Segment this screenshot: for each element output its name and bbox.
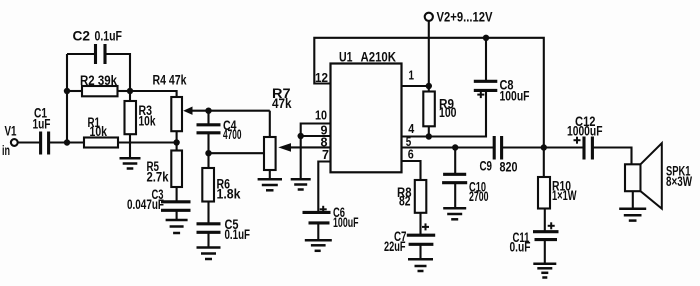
svg-text:1uF: 1uF bbox=[33, 117, 51, 132]
wire R6 bottom to C5 bbox=[207, 202, 209, 224]
svg-text:22uF: 22uF bbox=[384, 239, 406, 254]
svg-text:2700: 2700 bbox=[469, 189, 489, 204]
svg-text:1×1W: 1×1W bbox=[552, 188, 577, 203]
resistor R9 100 bbox=[423, 92, 456, 127]
wire V1 to C1 bbox=[18, 141, 41, 143]
svg-text:0.1uF: 0.1uF bbox=[95, 29, 123, 44]
wire R7 bottom to ground bbox=[269, 170, 271, 179]
svg-text:1: 1 bbox=[409, 68, 415, 83]
pin 1 wire bbox=[402, 85, 429, 87]
svg-text:0.1uF: 0.1uF bbox=[225, 227, 251, 242]
wire R3 top stem bbox=[129, 91, 131, 101]
capacitor C6 100uF bbox=[303, 205, 359, 230]
resistor R1 10k bbox=[84, 115, 118, 148]
pin 12 wire and bootstrap rail to output node bbox=[314, 38, 544, 148]
wire R9 bottom to pin 4 line bbox=[428, 126, 430, 136]
wire R9 top stem bbox=[428, 86, 430, 92]
svg-text:820: 820 bbox=[500, 160, 518, 175]
capacitor C11 0.uF bbox=[510, 222, 559, 254]
svg-text:0.047uF: 0.047uF bbox=[127, 197, 164, 212]
capacitor C9 820 bbox=[480, 136, 518, 175]
capacitor C8 100uF bbox=[474, 78, 530, 104]
svg-text:10k: 10k bbox=[90, 124, 108, 139]
svg-text:8×3W: 8×3W bbox=[666, 174, 692, 189]
svg-text:R2 39k: R2 39k bbox=[80, 73, 117, 88]
wire C10 stem bbox=[454, 148, 456, 175]
ground under C3 bbox=[166, 220, 188, 233]
ground under C5 bbox=[197, 248, 221, 260]
wire C9 to output node bbox=[502, 146, 584, 148]
ground under C10 bbox=[443, 208, 466, 219]
wire junction to R6 top bbox=[207, 153, 209, 168]
input terminal V1 bbox=[2, 124, 18, 159]
wire junction to R7 left bbox=[209, 152, 265, 154]
capacitor C4 4700 bbox=[197, 118, 242, 142]
svg-text:R4 47k: R4 47k bbox=[153, 73, 187, 88]
wire R1 right to R4/R5 junction bbox=[118, 141, 177, 143]
resistor R7 47k potentiometer bbox=[264, 86, 292, 170]
pin 4 wire to C8 bottom bbox=[402, 90, 487, 136]
ground under C6 bbox=[305, 240, 332, 251]
wire R5 bottom to C3 bbox=[176, 187, 178, 202]
wire junction to R5 top bbox=[176, 143, 178, 151]
node C10 junction bbox=[452, 144, 458, 150]
wire wiper line corner down to R7 top bbox=[269, 111, 271, 137]
pin 5 output wire bbox=[402, 146, 495, 148]
wire output node down to R10 bbox=[543, 148, 545, 178]
resistor R3 10k bbox=[125, 101, 156, 134]
svg-text:1000uF: 1000uF bbox=[567, 124, 603, 139]
svg-text:100uF: 100uF bbox=[333, 215, 359, 230]
ground under R3 bbox=[120, 158, 141, 168]
capacitor C10 2700 bbox=[442, 174, 488, 204]
svg-text:1.8k: 1.8k bbox=[217, 187, 242, 202]
wire speaker to ground bbox=[632, 191, 634, 209]
wire C10 to ground bbox=[454, 183, 456, 209]
node R2 left junction bbox=[64, 88, 70, 94]
svg-text:V1: V1 bbox=[5, 124, 17, 139]
wire C7 to ground bbox=[419, 244, 421, 259]
resistor R8 82 bbox=[397, 180, 426, 213]
svg-text:U1: U1 bbox=[339, 50, 353, 65]
resistor R4 47k potentiometer bbox=[153, 73, 187, 132]
ground under pin9/10 riser bbox=[291, 179, 311, 189]
svg-text:82: 82 bbox=[399, 194, 411, 209]
wire C3 to ground bbox=[176, 210, 178, 220]
pin 6 wire to R8 bbox=[402, 161, 421, 180]
wire C2 right leg down to node B bbox=[105, 54, 130, 91]
svg-text:in: in bbox=[2, 143, 10, 158]
svg-text:V2+9...12V: V2+9...12V bbox=[437, 10, 493, 25]
wire C12 to speaker bbox=[592, 148, 631, 165]
svg-text:4700: 4700 bbox=[223, 127, 242, 142]
pin 10 wire bbox=[301, 124, 331, 180]
capacitor C2 0.1uF bbox=[73, 29, 123, 65]
capacitor C1 1uF bbox=[33, 106, 51, 155]
resistor R10 1x1W bbox=[538, 177, 577, 209]
svg-text:100: 100 bbox=[439, 105, 457, 120]
ground under C7 bbox=[408, 259, 433, 271]
wire riser node A up to C2 level bbox=[66, 54, 68, 143]
wire C4 bottom to lower junction bbox=[207, 133, 209, 153]
wire R4 bottom to junction bbox=[176, 131, 178, 142]
svg-text:10k: 10k bbox=[139, 114, 156, 129]
wire C1 to R1 bbox=[49, 141, 84, 143]
node C8 top junction bbox=[483, 35, 489, 41]
svg-text:7: 7 bbox=[322, 147, 329, 162]
wire down to C4 bbox=[207, 111, 209, 125]
wire R8 bottom to C7 bbox=[419, 213, 421, 235]
wire C6 to ground bbox=[317, 223, 319, 240]
capacitor C3 0.047uF bbox=[127, 187, 191, 212]
svg-text:47k: 47k bbox=[272, 96, 292, 111]
svg-text:C9: C9 bbox=[480, 159, 493, 174]
node output junction bbox=[541, 144, 547, 150]
pin 9 wire bbox=[301, 135, 331, 137]
svg-text:0.uF: 0.uF bbox=[510, 240, 531, 255]
wire C11 to ground bbox=[544, 240, 546, 264]
svg-text:C2: C2 bbox=[73, 29, 91, 44]
wire R10 bottom to C11 bbox=[544, 209, 546, 232]
node pin9 junction bbox=[298, 133, 304, 139]
pin 7 wire to C6 bbox=[318, 162, 330, 213]
speaker SPK1 bbox=[625, 143, 692, 208]
svg-text:6: 6 bbox=[408, 147, 414, 162]
node B junction bbox=[127, 88, 133, 94]
wiper arrow into R4 bbox=[183, 107, 270, 115]
ground under C11 bbox=[533, 264, 556, 278]
svg-text:A210K: A210K bbox=[361, 50, 397, 65]
wire to R2 left bbox=[67, 90, 82, 92]
svg-text:10: 10 bbox=[315, 108, 327, 123]
capacitor C12 1000uF bbox=[567, 114, 603, 160]
node A junction bbox=[64, 139, 70, 145]
wire node B to R4 top bbox=[130, 91, 177, 97]
svg-text:100uF: 100uF bbox=[500, 89, 530, 104]
ground under R7 bbox=[258, 179, 282, 190]
wire C5 to ground bbox=[207, 232, 209, 247]
ground under speaker bbox=[619, 209, 646, 221]
capacitor C7 22uF bbox=[384, 223, 435, 254]
op-amp U1 A210K IC box bbox=[331, 50, 402, 173]
wire C8 top to rail bbox=[485, 38, 487, 82]
node pin1/R9 junction bbox=[426, 83, 432, 89]
resistor R6 1.8k bbox=[202, 168, 241, 202]
resistor R5 2.7k bbox=[147, 151, 183, 188]
svg-text:2.7k: 2.7k bbox=[147, 170, 169, 185]
node C4/R6 junction bbox=[205, 150, 211, 156]
wire R3 bottom to ground crossing main wire bbox=[129, 134, 131, 158]
wire R2 right to node B bbox=[118, 90, 131, 92]
resistor R2 39k bbox=[80, 73, 118, 96]
node R4/R5 junction bbox=[173, 139, 179, 145]
wiper arrow into R7 from pin 8 bbox=[278, 143, 330, 152]
node R9/pin4 junction bbox=[426, 133, 432, 139]
supply terminal V2 bbox=[425, 10, 493, 25]
capacitor C5 0.1uF bbox=[197, 217, 251, 242]
wire C2 left leg bbox=[67, 53, 96, 55]
node C4 top junction bbox=[205, 108, 211, 114]
wire V2 down to pin 1 line bbox=[428, 21, 430, 86]
